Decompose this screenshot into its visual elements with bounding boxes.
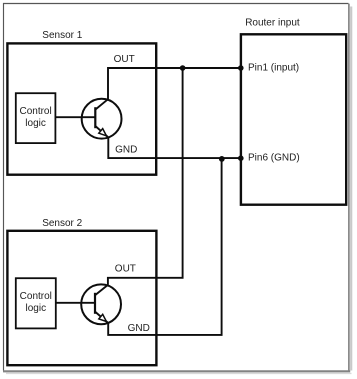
transistor Q1 [55, 99, 121, 139]
GND wire sensor2 riser to Pin6 net [108, 158, 221, 335]
Q1 emitter arrowhead [99, 129, 107, 136]
Pin1 terminal dot [238, 65, 244, 71]
Sensor 2 box [7, 231, 156, 365]
Q1 base wire [55, 116, 95, 118]
control logic box U1 [16, 93, 56, 143]
Q2 emitter diagonal [95, 312, 108, 323]
Q1 body circle [82, 99, 122, 139]
control logic box U2 [16, 278, 56, 328]
svg-text:Pin6 (GND): Pin6 (GND) [248, 152, 300, 163]
transistor Q2 [56, 284, 121, 324]
Q1 emitter diagonal [95, 126, 108, 137]
junction dot GND net [219, 156, 225, 162]
svg-text:GND: GND [115, 144, 137, 155]
svg-text:OUT: OUT [115, 263, 136, 274]
Q1 base bar [94, 107, 96, 128]
Q2 collector diagonal [95, 285, 108, 295]
svg-text:Router input: Router input [245, 18, 300, 29]
Q2 emitter arrowhead [99, 314, 107, 321]
svg-text:Control: Control [19, 106, 51, 117]
svg-text:Pin1 (input): Pin1 (input) [248, 62, 299, 73]
svg-text:logic: logic [26, 303, 47, 314]
Sensor 1 box [7, 43, 156, 174]
svg-text:OUT: OUT [114, 54, 135, 65]
svg-text:GND: GND [128, 323, 150, 334]
Pin6 terminal dot [238, 155, 244, 161]
Router input box [241, 34, 346, 204]
Q2 base wire [56, 302, 95, 304]
junction dot OUT net [180, 65, 186, 71]
svg-text:Control: Control [20, 291, 52, 302]
GND wire sensor1 to Pin6 [108, 137, 240, 158]
svg-text:logic: logic [25, 118, 46, 129]
OUT wire sensor1 to Pin1 [108, 68, 241, 99]
Q2 base bar [94, 293, 96, 314]
svg-text:Sensor 2: Sensor 2 [42, 218, 82, 229]
Q2 body circle [81, 284, 121, 324]
Q1 collector diagonal [95, 99, 108, 109]
svg-text:Sensor 1: Sensor 1 [42, 30, 82, 41]
OUT wire sensor2 riser to Pin1 net [108, 68, 183, 285]
